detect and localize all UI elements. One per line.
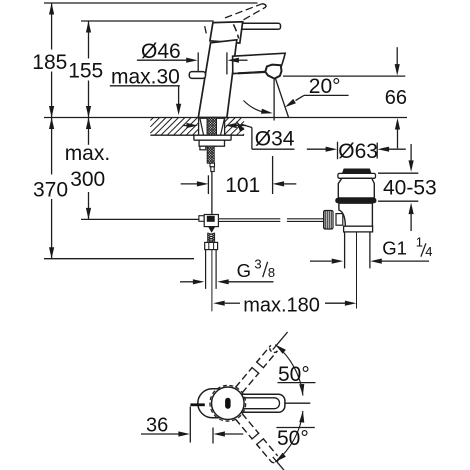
hose coil (knurled) — [208, 233, 215, 245]
svg-text:max.: max. — [65, 142, 111, 165]
svg-text:50°: 50° — [277, 427, 309, 450]
threaded stud (knurled) — [207, 146, 214, 163]
extension line hose bottom 370 — [44, 258, 194, 260]
svg-text:max.30: max.30 — [111, 66, 180, 89]
dashed raised lever — [205, 4, 266, 39]
waste upper body — [338, 178, 374, 198]
faucet body — [198, 40, 237, 118]
svg-text:300: 300 — [70, 168, 105, 191]
waste coupling nut — [344, 226, 373, 232]
svg-text:40-53: 40-53 — [383, 176, 437, 199]
svg-text:3: 3 — [254, 256, 261, 271]
waste flange gasket — [335, 198, 376, 203]
top extension line (lever max height) — [44, 2, 258, 4]
dim 101 — [207, 175, 209, 194]
linkage clamp — [199, 216, 204, 222]
dimension line 155/max300 vertical — [88, 21, 90, 59]
20deg arc arrow — [244, 101, 267, 113]
top view base (stadium) — [198, 389, 232, 418]
faucet lever bar — [240, 23, 281, 29]
extension line max300 bottom — [81, 218, 204, 220]
dim Ø46 arrows — [137, 59, 188, 61]
dim G3/8 — [180, 281, 193, 283]
pull-rod knob on body — [189, 72, 205, 79]
lever horizontal extension — [285, 402, 310, 404]
extension line body top 155 — [81, 20, 214, 22]
top view body circle — [212, 387, 245, 420]
svg-text:370: 370 — [33, 178, 68, 201]
top view lever slot — [225, 398, 231, 409]
svg-text:20°: 20° — [309, 75, 341, 98]
dimension line 185/370 vertical — [51, 3, 53, 50]
linkage rod — [218, 218, 280, 220]
waste rod boss — [336, 214, 343, 226]
dim G1 1/4 — [310, 260, 332, 262]
svg-text:155: 155 — [68, 60, 103, 83]
top view lever inner — [238, 398, 280, 409]
dim max.180 — [225, 302, 240, 304]
hose nut — [205, 242, 218, 249]
mounting flange — [194, 135, 231, 140]
top view raised lever dashed (upper 50deg) — [235, 345, 277, 393]
svg-text:185: 185 — [32, 51, 67, 74]
svg-text:101: 101 — [225, 174, 260, 197]
svg-text:1: 1 — [416, 234, 423, 249]
faucet centerline — [211, 250, 213, 311]
label Ø34 leader — [236, 121, 244, 132]
waste knurled knob — [324, 211, 333, 230]
waste tailpipe — [344, 232, 346, 269]
svg-text:max.180: max.180 — [243, 295, 320, 317]
svg-text:4: 4 — [425, 244, 432, 259]
20deg wedge slant — [276, 79, 289, 118]
waste plug dome — [343, 169, 372, 173]
dim 40-53 — [410, 144, 412, 161]
svg-text:36: 36 — [146, 415, 168, 437]
top view dashed circle — [210, 385, 246, 421]
pull rod — [211, 172, 213, 215]
svg-text:G1: G1 — [382, 238, 407, 259]
counter top line — [44, 117, 407, 119]
waste top plate — [338, 173, 376, 178]
stud tip — [210, 163, 215, 167]
dim 66 — [396, 47, 398, 64]
mounting cone right — [216, 118, 224, 135]
svg-text:66: 66 — [385, 87, 407, 109]
dim Ø34 hole arrows — [183, 125, 189, 127]
threaded shank (knurled) — [207, 118, 216, 146]
nut step — [200, 146, 206, 150]
waste centerline — [356, 232, 358, 309]
waste lower body — [339, 203, 373, 226]
svg-text:Ø34: Ø34 — [255, 127, 295, 150]
spout outlet extension line — [283, 75, 405, 77]
50deg extension line lower — [273, 457, 288, 470]
spout aerator beak — [265, 65, 281, 79]
hose funnel — [208, 227, 215, 233]
svg-text:Ø46: Ø46 — [141, 40, 181, 63]
counter hole edges — [198, 118, 200, 136]
spout — [233, 53, 286, 73]
hose tube — [205, 250, 207, 289]
50deg arc upper — [275, 345, 303, 396]
svg-text:8: 8 — [268, 265, 275, 280]
50deg extension line upper — [273, 332, 288, 350]
top view lowered lever dashed (lower 50deg) — [235, 414, 278, 463]
svg-text:G: G — [237, 260, 251, 281]
50deg arc lower — [275, 411, 303, 462]
top view pull rod — [190, 403, 204, 406]
counter slab hatching — [150, 118, 244, 136]
svg-text:Ø63: Ø63 — [338, 140, 378, 163]
mounting nut — [199, 140, 224, 146]
top view lever outer — [231, 394, 285, 412]
faucet lever block — [210, 22, 243, 43]
dim Ø46 extension lines — [197, 52, 199, 71]
20deg wedge vertical — [273, 80, 275, 121]
dim Ø63 — [337, 142, 339, 160]
mounting cone left — [200, 118, 207, 135]
counter bottom edges — [150, 134, 198, 136]
